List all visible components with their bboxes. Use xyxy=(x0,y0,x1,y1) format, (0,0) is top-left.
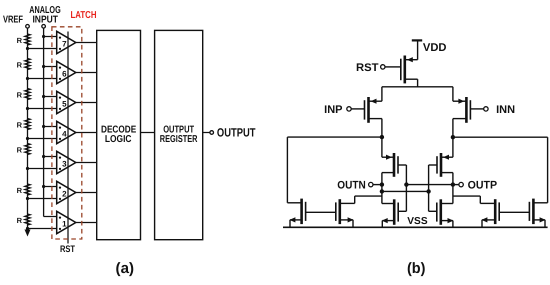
svg-text:5: 5 xyxy=(62,100,67,109)
svg-text:LOGIC: LOGIC xyxy=(105,134,132,145)
svg-text:R: R xyxy=(17,61,23,70)
svg-text:RST: RST xyxy=(60,244,75,255)
svg-text:3: 3 xyxy=(62,160,67,169)
svg-text:R: R xyxy=(17,186,23,195)
svg-text:2: 2 xyxy=(62,190,67,199)
svg-text:R: R xyxy=(17,146,23,155)
svg-text:OUTN: OUTN xyxy=(337,180,366,192)
svg-text:VSS: VSS xyxy=(407,216,428,227)
svg-text:4: 4 xyxy=(62,130,67,139)
svg-text:INP: INP xyxy=(324,104,342,116)
svg-text:R: R xyxy=(17,121,23,130)
svg-text:R: R xyxy=(17,216,23,225)
svg-text:6: 6 xyxy=(62,70,67,79)
svg-text:R: R xyxy=(17,91,23,100)
svg-text:OUTP: OUTP xyxy=(468,180,498,192)
svg-text:VDD: VDD xyxy=(423,42,447,54)
svg-text:7: 7 xyxy=(62,40,67,49)
svg-text:REGISTER: REGISTER xyxy=(160,134,198,145)
svg-text:RST: RST xyxy=(356,62,379,74)
svg-text:INPUT: INPUT xyxy=(32,14,58,25)
svg-text:1: 1 xyxy=(62,220,67,229)
svg-text:(a): (a) xyxy=(116,260,135,277)
svg-text:OUTPUT: OUTPUT xyxy=(217,126,256,140)
svg-text:LATCH: LATCH xyxy=(71,10,97,21)
svg-text:(b): (b) xyxy=(407,260,426,277)
svg-text:INN: INN xyxy=(496,104,515,116)
svg-text:R: R xyxy=(17,36,23,45)
svg-text:VREF: VREF xyxy=(3,14,23,25)
